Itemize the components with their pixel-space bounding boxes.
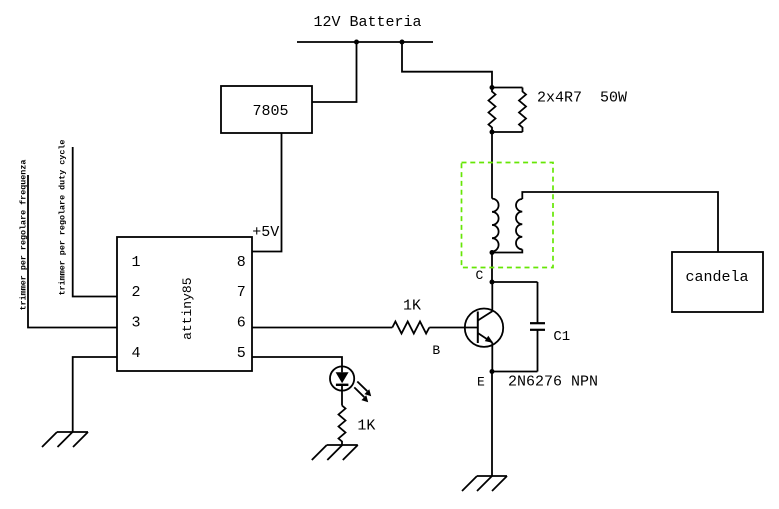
svg-text:2N6276 NPN: 2N6276 NPN [508, 374, 598, 391]
ground left [42, 432, 88, 447]
svg-text:attiny85: attiny85 [180, 277, 195, 339]
svg-text:B: B [432, 343, 440, 358]
wire pin 4 to ground [73, 357, 117, 432]
wire pin 3 to frequency trimmer [28, 175, 117, 328]
svg-text:trimmer per regolare duty cycl: trimmer per regolare duty cycle [58, 140, 68, 296]
svg-text:C1: C1 [553, 329, 570, 345]
svg-text:1K: 1K [357, 417, 375, 434]
regulator 7805 box [221, 86, 312, 133]
ground right [462, 476, 507, 491]
node bus-7805 junction [354, 40, 359, 45]
wire pin 6 to base resistor [252, 327, 392, 329]
svg-text:7805: 7805 [253, 103, 289, 120]
svg-text:candela: candela [686, 269, 749, 286]
wire resistor to transformer primary [491, 132, 493, 199]
node transformer bottom junction [490, 250, 495, 255]
svg-text:3: 3 [132, 315, 141, 332]
wire 12V battery bus [297, 41, 433, 43]
transistor Q1 2N6276 [465, 309, 503, 347]
wire collector up to node C [491, 282, 493, 311]
load candela box [672, 252, 763, 312]
transformer green dashed box [462, 163, 554, 268]
wire node C to capacitor [492, 281, 538, 283]
wire primary bottom to node C [491, 251, 493, 282]
svg-text:+5V: +5V [252, 224, 279, 241]
resistor R LED 1K [339, 406, 346, 446]
svg-text:7: 7 [237, 284, 246, 301]
svg-text:2x4R7 50W: 2x4R7 50W [537, 90, 627, 107]
transformer primary coil [492, 199, 499, 252]
resistor R base 1K [392, 322, 429, 334]
wire bus to 7805 input [312, 42, 357, 102]
wire 7805 output to +5V pin 8 [252, 133, 282, 252]
svg-text:12V Batteria: 12V Batteria [314, 14, 422, 31]
svg-text:8: 8 [237, 254, 246, 271]
wire bus to power resistor [402, 42, 492, 88]
LED D1 [330, 366, 354, 405]
wire node E to capacitor [492, 371, 538, 373]
wire pin 5 to LED [252, 357, 342, 367]
svg-text:E: E [477, 375, 485, 390]
junction dots [354, 40, 495, 375]
IC U1 attiny85 box [117, 237, 252, 371]
resistor R 2x4R7 parallel pair [489, 88, 527, 133]
svg-text:1: 1 [132, 254, 141, 271]
svg-text:4: 4 [132, 345, 141, 362]
LED light arrow 2 [354, 387, 368, 402]
wire secondary top to candela [522, 192, 718, 252]
transformer secondary coil [516, 199, 522, 249]
svg-text:1K: 1K [403, 297, 421, 314]
node resistor top junction [490, 85, 495, 90]
wire pin 2 to duty-cycle trimmer [73, 147, 117, 297]
node C junction [490, 280, 495, 285]
node bus-resistor junction [400, 40, 405, 45]
ground LED [312, 445, 358, 460]
wire emitter to ground [491, 372, 493, 477]
wire emitter down to node E [491, 343, 493, 372]
svg-text:5: 5 [237, 345, 246, 362]
svg-text:6: 6 [237, 315, 246, 332]
wire base resistor to transistor base [429, 327, 478, 329]
svg-text:2: 2 [132, 284, 141, 301]
capacitor C1 [530, 282, 545, 372]
svg-text:C: C [476, 268, 484, 283]
wire secondary bottom to primary bottom [492, 249, 522, 252]
node resistor bottom junction [490, 130, 495, 135]
LED light arrow 1 [357, 382, 371, 397]
svg-text:trimmer per regolare frequenza: trimmer per regolare frequenza [19, 160, 29, 311]
node E junction [490, 369, 495, 374]
